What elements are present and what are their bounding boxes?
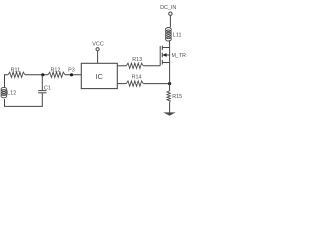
resistor R12: [48, 72, 65, 77]
svg-text:R12: R12: [50, 67, 60, 73]
wire R14 to source node: [143, 83, 169, 85]
source stub: [162, 62, 169, 64]
wire left corner to R11: [5, 75, 9, 88]
svg-text:IC: IC: [95, 72, 103, 81]
wire VCC to IC: [97, 51, 99, 63]
resistor R15: [167, 91, 170, 102]
drain stub: [162, 47, 169, 49]
channel bar segments: [161, 46, 163, 51]
capacitor C1: [38, 90, 46, 92]
inductor L12: [1, 87, 7, 97]
svg-text:L11: L11: [173, 32, 182, 38]
node P3: [70, 73, 73, 76]
svg-text:R11: R11: [11, 68, 21, 74]
wire IC to R13: [117, 65, 126, 67]
wire R13 to gate: [143, 65, 160, 67]
wire DC_IN to L11: [169, 16, 171, 28]
DC_IN terminal: [169, 12, 172, 15]
wire IC to R14: [117, 83, 126, 85]
resistor R13: [126, 63, 143, 68]
transistor M_TR: [160, 40, 169, 84]
ground: [163, 112, 175, 115]
wire R11 to node: [25, 74, 48, 76]
IC U1 box: [81, 63, 117, 88]
node junction C1 tap: [41, 73, 44, 76]
drain-source rail: [169, 40, 171, 84]
svg-text:DC_IN: DC_IN: [160, 5, 176, 11]
svg-text:R14: R14: [132, 75, 142, 81]
wire R12 to IC: [65, 74, 81, 76]
gate bar: [159, 46, 161, 66]
svg-text:R15: R15: [172, 94, 182, 100]
svg-text:R13: R13: [132, 57, 142, 63]
resistor R11: [8, 72, 25, 77]
svg-text:P3: P3: [68, 68, 75, 74]
svg-text:M_TR: M_TR: [172, 53, 187, 59]
svg-text:C1: C1: [44, 86, 51, 92]
node source junction: [168, 82, 171, 85]
resistor R14: [126, 81, 143, 86]
wire L12 bottom to C1 bottom: [5, 93, 43, 107]
VCC terminal: [96, 48, 99, 51]
svg-text:VCC: VCC: [92, 41, 104, 47]
wire node to R15: [169, 84, 171, 91]
wire R15 to ground: [169, 102, 171, 112]
bulk arrow: [163, 53, 167, 57]
inductor L11: [166, 28, 172, 42]
svg-text:L12: L12: [7, 90, 16, 96]
bulk stub: [162, 54, 169, 56]
wire C1 top lead: [41, 75, 43, 91]
